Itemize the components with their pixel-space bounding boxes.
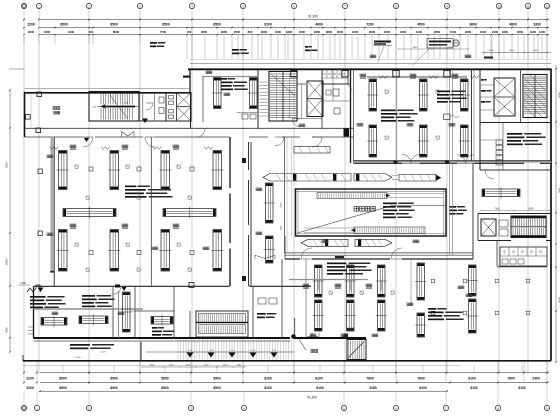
mini dimension row under bottom wall: [142, 366, 245, 368]
svg-text:8500: 8500: [213, 22, 221, 26]
wall x411 vertical lower: [410, 259, 412, 305]
duct spear lower run 2: [355, 239, 392, 246]
bottom extension lines: [24, 362, 547, 383]
door arc corridor west 3: [312, 137, 322, 147]
svg-text:7200: 7200: [366, 22, 374, 26]
svg-text:2000: 2000: [489, 50, 495, 52]
FCU right hall top row 2: [420, 79, 428, 111]
duct band upper short: [294, 147, 330, 154]
svg-text:8500: 8500: [59, 386, 67, 390]
wing interior finish line: [30, 94, 32, 129]
svg-text:4200: 4200: [6, 327, 9, 333]
svg-text:2200: 2200: [465, 30, 472, 34]
svg-text:2200: 2200: [26, 376, 34, 380]
wall x285 atrium-corridor link: [284, 236, 286, 259]
grid bubble top 3: [86, 3, 91, 8]
corridor east dark piers: [445, 160, 450, 164]
left wing corridor exit arrow: [142, 119, 148, 124]
grid bubble top 12: [525, 3, 530, 8]
entrance round pier: [291, 334, 296, 339]
FCU lower-left horizontal 1: [41, 318, 67, 326]
top dimension line 3: [40, 34, 549, 36]
door arc corridor south 2: [391, 248, 402, 259]
svg-text:91,300: 91,300: [307, 395, 317, 399]
text block FP-63 upper rooms: [221, 78, 227, 80]
right riser stack: [496, 140, 503, 144]
svg-text:1800: 1800: [286, 30, 293, 34]
grid bubble top 13: [544, 3, 549, 8]
svg-text:3300: 3300: [533, 22, 541, 26]
column square left wing 1: [37, 92, 42, 97]
svg-text:15400: 15400: [6, 258, 9, 266]
lower-left gray duct horizontal: [34, 308, 144, 310]
svg-text:1600: 1600: [384, 30, 391, 34]
toilet block core top: [322, 69, 348, 84]
svg-text:3000: 3000: [533, 50, 539, 52]
duct band along west wall: [51, 137, 55, 272]
door arc upper rooms: [196, 128, 205, 137]
wall lower-left divider x135: [134, 286, 136, 338]
svg-text:8500: 8500: [213, 376, 221, 380]
svg-text:2300: 2300: [314, 30, 321, 34]
duct vertical grey riser: [449, 71, 451, 255]
wall x306 vertical lower: [305, 259, 307, 338]
wall upper rooms divider x258: [257, 69, 259, 128]
cells between elevator and stair: [499, 220, 508, 227]
FCU lower-left horizontal 3: [151, 317, 173, 325]
grid bubble bottom 5: [241, 405, 246, 410]
corridor south wall label: [335, 256, 344, 258]
svg-text:10: 10: [497, 4, 501, 8]
ramp label: [70, 344, 90, 346]
door arc corridor mid to atrium: [275, 137, 284, 146]
toilet block south-right: [500, 247, 547, 266]
wall lower-left divider x190: [189, 311, 191, 338]
grid bubble bottom 7: [393, 405, 398, 410]
svg-text:4500: 4500: [417, 22, 425, 26]
FCU left hall horizontal 2: [163, 209, 216, 217]
core door leaf diagonal: [347, 83, 352, 90]
svg-text:4800: 4800: [201, 30, 208, 34]
column square left wing 2: [26, 115, 31, 120]
grid bubble bottom 8: [443, 405, 448, 410]
svg-text:8500: 8500: [60, 22, 68, 26]
duct band third segment: [399, 174, 436, 181]
south entrance wall heavy: [294, 337, 366, 339]
small unit labels: [357, 124, 360, 127]
right extra dim line: [483, 52, 551, 54]
column squares parking: [431, 279, 435, 283]
column square on west corridor: [36, 128, 41, 133]
svg-text:1500: 1500: [450, 30, 457, 34]
svg-text:4300: 4300: [68, 30, 75, 34]
left platform step marks: [28, 327, 33, 334]
wall x520 elevator-stair: [520, 69, 522, 122]
svg-text:8500: 8500: [161, 376, 169, 380]
wall building top main: [188, 68, 551, 70]
svg-text:4300: 4300: [44, 30, 51, 34]
door arc corridor west 1: [83, 137, 93, 147]
entrance door jambs bottom centre: [255, 255, 275, 259]
stair S1 arrow: [101, 105, 105, 109]
wall lower-left band bottom main: [34, 337, 291, 339]
elevator E1 counterweight rects: [169, 96, 174, 99]
wall left-wing top thin: [25, 87, 191, 89]
atrium label text: [354, 207, 359, 212]
svg-text:8600: 8600: [113, 30, 120, 34]
svg-text:8100: 8100: [315, 376, 323, 380]
svg-text:5400: 5400: [281, 202, 283, 208]
left wing small service rects: [159, 97, 164, 103]
svg-text:i=12%: i=12%: [100, 352, 106, 354]
FCU bottom centre 6: [378, 300, 386, 331]
FCU bottom centre 4: [347, 300, 355, 331]
svg-text:1300: 1300: [352, 30, 359, 34]
svg-text:1900: 1900: [275, 30, 282, 34]
svg-text:7400: 7400: [494, 208, 500, 210]
stair S2 core: [269, 72, 297, 122]
grid bubble top 5: [189, 3, 194, 8]
hall south door arrow: [122, 287, 127, 291]
FCU upper room A1: [214, 78, 222, 109]
lower-left gray duct vertical: [118, 291, 120, 338]
wall corridor west bottom: [25, 136, 354, 138]
svg-text:1000: 1000: [480, 30, 487, 34]
svg-text:8500: 8500: [59, 376, 67, 380]
wall left-wing top main: [25, 92, 191, 94]
atrium inner offset lines: [297, 189, 299, 236]
top annotation note 2 boxed: [427, 39, 453, 49]
svg-text:8100: 8100: [264, 386, 272, 390]
wall x282 vertical lower: [281, 259, 283, 338]
door arc right rooms: [485, 170, 494, 179]
svg-text:8100: 8100: [6, 162, 9, 168]
svg-text:3050: 3050: [509, 50, 515, 52]
door arc corridor east 1: [402, 154, 411, 163]
svg-text:100: 100: [187, 30, 192, 34]
svg-text:3400: 3400: [281, 225, 283, 231]
FCU left hall top row 2: [110, 151, 119, 190]
top small labels: [150, 42, 157, 44]
stair S1 left wing: [89, 92, 139, 122]
wall lower-left divider x113: [112, 286, 114, 338]
svg-text:7,500: 7,500: [20, 282, 27, 285]
upper room gray duct: [202, 76, 258, 78]
wall right section y170: [480, 169, 551, 171]
grid bubble top 1: [21, 3, 26, 8]
grid bubble top extra ring: [23, 5, 26, 8]
door arc corridor south: [301, 248, 312, 259]
top extension lines: [24, 35, 547, 59]
FCU left hall bottom row 1: [59, 230, 68, 272]
grid bubble bottom 1: [21, 405, 26, 410]
wall y267 toilets bottom: [497, 266, 547, 268]
svg-text:2400: 2400: [492, 30, 499, 34]
wall right section x480: [479, 69, 481, 170]
grid bubble bottom 6: [341, 405, 346, 410]
FCU left hall bottom row 2: [110, 230, 119, 272]
atrium annotation block: [383, 203, 397, 205]
small dim line top inside plan: [398, 48, 468, 50]
ramp centre line: [146, 351, 294, 353]
small unit sublabels: [70, 149, 76, 150]
FCU right hall bottom row 1: [369, 125, 377, 157]
escalator pair lower-left band: [196, 311, 248, 337]
wall hall west left outer: [53, 137, 55, 286]
wall corridor east bottom: [354, 162, 552, 164]
entrance square pier: [344, 334, 349, 339]
core corridor dark pier: [344, 129, 350, 137]
grid bubble bottom 2: [34, 405, 39, 410]
wall corridor east top: [354, 161, 552, 163]
FCU bottom centre 2: [315, 300, 323, 331]
FCU left hall bottom row 3: [161, 230, 170, 272]
FCU right mid horizontal: [482, 189, 520, 197]
svg-text:2500: 2500: [234, 30, 241, 34]
room label machine room: [53, 107, 56, 110]
text block FP-160M left hall: [125, 186, 136, 188]
wall upper rooms top segment: [191, 92, 259, 94]
FCU left hall bottom row 4: [213, 230, 222, 272]
wall right riser room x503: [502, 123, 504, 171]
top annotation leaders: [378, 46, 384, 62]
FCU right hall top row 1: [369, 79, 377, 111]
column squares below top wall: [291, 71, 297, 77]
grid bubble bottom 9: [495, 405, 500, 410]
svg-text:4600: 4600: [315, 22, 323, 26]
wall x497 toilets west: [496, 241, 498, 267]
supply arrow on west corridor: [84, 138, 90, 142]
svg-text:12: 12: [545, 4, 549, 8]
elevator E2 core: [307, 81, 323, 117]
text block FP-40 right edge: [507, 133, 522, 135]
grid bubble top 10: [444, 3, 449, 8]
toilet south-right fixtures: [502, 259, 508, 264]
svg-text:8100: 8100: [419, 386, 427, 390]
svg-text:800: 800: [248, 30, 253, 34]
right core stair hatch: [524, 75, 546, 117]
bottom dimension line 3: [40, 390, 447, 392]
wall hall west bottom: [34, 285, 312, 287]
wall lower-left outer: [33, 286, 35, 338]
svg-text:11: 11: [526, 4, 529, 8]
svg-text:2200: 2200: [27, 22, 35, 26]
svg-text:2400: 2400: [532, 376, 540, 380]
ramp hatch area: [178, 340, 291, 360]
wall corridor south top lines: [285, 252, 473, 254]
wall upper rooms divider x190: [190, 93, 192, 129]
svg-text:2600: 2600: [369, 30, 376, 34]
svg-text:8500: 8500: [110, 386, 118, 390]
wall stub x294 lower: [294, 318, 296, 338]
svg-text:8100: 8100: [518, 386, 526, 390]
corridor mid door darks: [242, 158, 246, 163]
duct spear lower run: [301, 239, 348, 246]
text block FP-71 lower: [152, 327, 157, 329]
grid bubble top 8: [342, 3, 347, 8]
duct thin verticals near atrium: [284, 137, 286, 253]
svg-text:7800: 7800: [366, 376, 374, 380]
svg-text:1200: 1200: [416, 30, 423, 34]
FCU right hall bottom row 3: [461, 125, 469, 157]
FCU mid strip 2: [266, 236, 274, 263]
svg-text:3000: 3000: [221, 30, 228, 34]
svg-text:8100: 8100: [264, 376, 272, 380]
stair S5 mid-right: [511, 216, 546, 238]
wall core toilet bottom y84: [322, 83, 351, 85]
wall core x350 double: [350, 69, 352, 163]
right core elevators E3 E4: [494, 78, 515, 116]
grid bubble top 7: [291, 3, 296, 8]
upper room closets: [242, 114, 248, 119]
svg-text:8600: 8600: [528, 208, 534, 210]
wall bottom apron line: [23, 365, 460, 367]
wall building top thin parapet: [190, 63, 551, 65]
svg-text:8100: 8100: [470, 386, 478, 390]
wall bottom outer main: [23, 360, 551, 362]
FCU lower-left horizontal 2: [79, 316, 108, 324]
top annotation note 1: [374, 41, 391, 43]
bottom centre gray duct: [289, 279, 368, 281]
svg-text:1200: 1200: [539, 30, 546, 34]
svg-text:2800: 2800: [326, 30, 333, 34]
lower-left room fixtures: [258, 298, 266, 304]
door arc corridor west 2: [145, 137, 155, 147]
svg-text:600: 600: [89, 30, 94, 34]
svg-text:7600: 7600: [507, 376, 515, 380]
wall corridor mid-vertical west side: [229, 137, 231, 286]
svg-text:2200: 2200: [28, 30, 35, 34]
grid bubble bottom extra ring: [23, 407, 26, 410]
grid bubble bottom 4: [188, 405, 193, 410]
wall bottom left corner stub: [22, 355, 24, 361]
grid bubble top 4: [137, 3, 142, 8]
grid bubble bottom 10: [544, 405, 549, 410]
svg-text:8100: 8100: [316, 386, 324, 390]
top annotation detail circle: [453, 40, 459, 46]
wing partition walls: [139, 120, 166, 122]
svg-text:8500: 8500: [110, 22, 118, 26]
svg-text:1800: 1800: [502, 30, 509, 34]
FCU bottom centre 9: [469, 265, 477, 296]
top dimension line 2: [40, 27, 549, 29]
svg-text:8500: 8500: [213, 386, 221, 390]
door jamb marks corridor west: [122, 132, 135, 138]
stair S6 bottom-right of band: [347, 340, 366, 360]
FCU bottom centre 7: [417, 263, 425, 300]
lower-left door arc: [113, 286, 121, 294]
FCU left hall top row 3: [161, 151, 170, 190]
svg-text:8100: 8100: [264, 22, 272, 26]
exterior step zigzag: [27, 285, 40, 292]
svg-text:3400: 3400: [413, 47, 419, 49]
right core west rooms dividers: [480, 85, 494, 110]
door arc core: [292, 119, 300, 127]
text block FP-80 lower left B: [82, 295, 95, 297]
bottom dimension line 1: [40, 372, 549, 374]
service shaft ladder: [260, 82, 269, 116]
wing room door arc: [146, 103, 153, 110]
wall ramp left edge: [140, 342, 142, 360]
wall lower-left divider x253: [252, 286, 254, 338]
wall right section y122: [480, 122, 551, 124]
text block FP-80 lower left A: [30, 296, 46, 298]
FCU upper room A2: [250, 78, 258, 109]
duct spear upper run 2: [354, 174, 392, 182]
flex duct zigzags: [101, 147, 110, 150]
svg-text:2200: 2200: [26, 386, 34, 390]
svg-text:3600: 3600: [469, 22, 477, 26]
grid bubble top 2: [36, 3, 41, 8]
FCU lower-left vertical: [123, 292, 131, 332]
duct gray riser at x396: [396, 70, 398, 161]
elevator E1 left wing: [166, 93, 191, 122]
wall right outer: [550, 69, 552, 361]
core elevator lobby wall: [297, 83, 306, 85]
atrium escalator band top: [317, 193, 387, 199]
atrium escalator band bottom: [354, 227, 425, 234]
wall x473 vertical: [471, 69, 473, 161]
svg-text:2800: 2800: [434, 30, 441, 34]
left vertical dimension line: [9, 90, 11, 352]
svg-text:1900: 1900: [530, 30, 537, 34]
bottom dimension line 2: [40, 382, 549, 384]
mid-right core outline: [478, 214, 551, 241]
text block right of atrium: [449, 206, 456, 208]
FCU bottom centre 10: [469, 299, 477, 333]
door arc corridor east 2: [457, 155, 466, 164]
duct spear upper run: [263, 174, 351, 182]
core small room fixtures: [333, 89, 339, 96]
column squares hall intersections: [89, 167, 93, 171]
text block FP-160 bottom centre: [327, 263, 346, 265]
svg-text:9100: 9100: [369, 386, 377, 390]
svg-text:1600: 1600: [299, 30, 306, 34]
mid-right inner dim line: [480, 210, 549, 212]
atrium escalator slope line: [298, 206, 447, 234]
text block FP-40 right hall: [437, 91, 450, 93]
wall core small y118: [297, 118, 322, 120]
wall step at x190: [189, 69, 191, 93]
wall corridor south bottom: [285, 258, 473, 260]
wall lower-left divider x174: [173, 286, 175, 338]
wall core toilets x322: [321, 69, 323, 128]
grid bubble bottom 3: [86, 405, 91, 410]
atrium void outline: [296, 189, 447, 236]
wall corridor mid-vertical east side: [249, 142, 252, 286]
FCU left hall top row 4: [213, 151, 222, 190]
FCU mid strip 1: [266, 183, 274, 223]
duct upper extension lines: [392, 175, 399, 177]
entrance door diagonals: [299, 340, 306, 351]
wall lower-left band inner: [34, 340, 291, 342]
text block FP-40 bottom right: [428, 308, 436, 310]
diffuser symbols: [75, 165, 78, 168]
svg-text:2600: 2600: [261, 30, 268, 34]
grid bubble top 9: [393, 3, 398, 8]
FCU bottom centre 5: [378, 265, 386, 297]
exit arrow lower-left: [38, 288, 44, 293]
svg-text:8500: 8500: [161, 386, 169, 390]
ramp down arrows: [187, 353, 194, 358]
column square on hall bottom wall: [189, 283, 194, 288]
svg-text:4600: 4600: [517, 30, 524, 34]
sunken area label: [311, 350, 314, 353]
text block FP-71 right hall lower: [381, 110, 396, 112]
svg-text:8500: 8500: [110, 376, 118, 380]
svg-text:1400: 1400: [448, 47, 454, 49]
svg-text:8500: 8500: [162, 22, 170, 26]
